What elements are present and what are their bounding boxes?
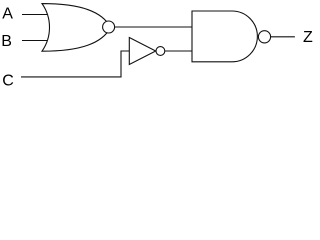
NOR gate U1 body (OR shape) (42, 4, 111, 52)
NAND gate U3 output bubble (258, 31, 270, 43)
wire A input (22, 14, 47, 16)
wire NOR output to NAND top input (115, 26, 192, 28)
inverter U2 triangle (129, 38, 155, 65)
wire B input (22, 40, 47, 42)
svg-text:A: A (2, 5, 13, 22)
wire inverter output to NAND bottom input (165, 50, 192, 52)
wire C input with riser to inverter (21, 51, 129, 77)
NOR gate U1 output bubble (103, 21, 115, 33)
svg-text:B: B (1, 33, 12, 50)
svg-text:C: C (2, 72, 14, 89)
svg-text:Z: Z (303, 29, 313, 46)
inverter U2 output bubble (156, 47, 165, 56)
wire Z output (271, 36, 295, 38)
NAND gate U3 body (AND shape) (192, 11, 257, 62)
